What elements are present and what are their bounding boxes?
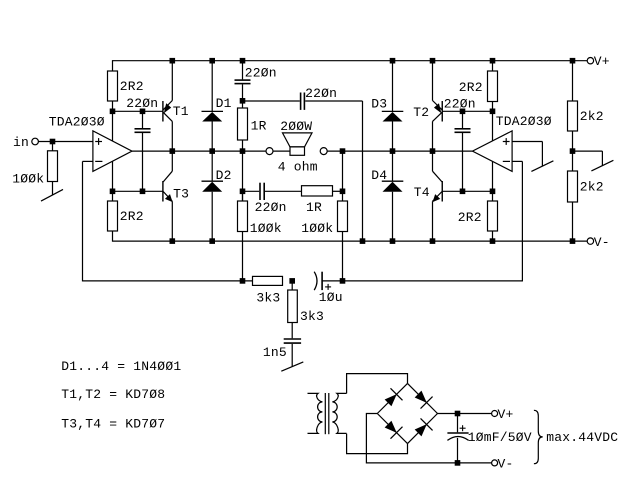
- svg-text:2R2: 2R2: [458, 210, 482, 225]
- resistor 2k2 (lower divider): [568, 171, 578, 202]
- node junction divider midpoint: [570, 148, 576, 154]
- bridge diode (bottom-right): [415, 424, 427, 436]
- resistor 2k2 (upper divider): [572, 61, 574, 101]
- ground (divider midpoint reference): [573, 150, 603, 152]
- diode D1: [211, 63, 213, 112]
- svg-text:2k2: 2k2: [580, 109, 604, 124]
- wire bridge plus output to V+: [438, 413, 492, 415]
- svg-text:D4: D4: [371, 168, 387, 183]
- node junction base line / 2R2 column: [110, 109, 116, 115]
- svg-text:2R2: 2R2: [459, 80, 483, 95]
- transformer TR1 secondary winding: [332, 393, 346, 433]
- node junction 3k3/10u/3k3: [289, 278, 295, 284]
- terminal V+: [587, 58, 593, 64]
- resistor 3k3 (vertical): [291, 281, 293, 290]
- wire 2R2 lower-left to V- rail corner: [112, 231, 114, 242]
- svg-text:D1...4 = 1N4ØØ1: D1...4 = 1N4ØØ1: [61, 359, 181, 374]
- wire secondary bottom to bridge: [347, 434, 408, 454]
- node junction base line / 220n cap: [140, 109, 146, 115]
- capacitor 220n (horizontal at y=191): [243, 190, 260, 192]
- wire bridge minus output to V-: [366, 414, 491, 463]
- wire V- bottom rail: [113, 240, 588, 242]
- svg-text:3k3: 3k3: [300, 309, 324, 324]
- bridge diode (top-left): [385, 394, 397, 406]
- resistor 100k (left of pair): [242, 191, 244, 201]
- svg-text:22Øn: 22Øn: [245, 66, 277, 81]
- svg-text:2ØØW: 2ØØW: [280, 119, 312, 134]
- svg-text:D2: D2: [216, 168, 232, 183]
- ground (input 100k): [52, 182, 54, 196]
- wire output line of U1 (to speaker): [132, 150, 266, 152]
- resistor 3k3 (horizontal, feedback): [253, 276, 283, 285]
- node junction lower base line / 220n cap: [140, 189, 146, 195]
- svg-text:1R: 1R: [251, 119, 267, 134]
- svg-text:V+: V+: [594, 54, 610, 69]
- wire U2 inverting input to feedback: [512, 160, 522, 162]
- transistor T2: [441, 101, 443, 122]
- svg-text:1R: 1R: [306, 200, 322, 215]
- resistor 1R (vertical): [238, 108, 248, 140]
- loudspeaker 200W 4 ohm: [283, 133, 313, 147]
- wire feedback line (bottom, left part): [83, 280, 253, 282]
- node feedback junction left: [240, 278, 246, 284]
- node junction lower base line / 2R2 column: [110, 189, 116, 195]
- node junction 10u / 100k column: [340, 278, 346, 284]
- svg-text:1ØØk: 1ØØk: [301, 221, 333, 236]
- svg-text:2k2: 2k2: [580, 179, 604, 194]
- svg-text:T2: T2: [413, 105, 429, 120]
- wire U1 inverting input feedback down-left: [83, 160, 93, 162]
- resistor 1R (horizontal): [302, 186, 333, 196]
- terminal speaker right: [320, 148, 327, 155]
- transistor T3: [162, 181, 164, 202]
- svg-text:1ØØk: 1ØØk: [12, 171, 44, 186]
- wire right column x=492.5: [492, 102, 494, 202]
- wire T2 base line right: [442, 110, 492, 112]
- node junction T1 emitter / V+ rail: [170, 58, 176, 64]
- wire left column x=112.5 from 2R2 down to lower base line: [112, 101, 114, 201]
- capacitor 10mF/50V: [457, 414, 459, 433]
- op-amp U1 TDA2030 (left): [93, 131, 132, 172]
- terminal V+ (supply): [492, 411, 498, 417]
- svg-text:TDA2Ø3Ø: TDA2Ø3Ø: [49, 114, 105, 129]
- wire secondary top to bridge: [347, 374, 408, 394]
- diode D3: [392, 63, 394, 112]
- svg-text:1ØØk: 1ØØk: [250, 221, 282, 236]
- wire V+ top rail: [113, 60, 588, 62]
- op-amp U2 TDA2030 (right): [473, 131, 513, 172]
- bridge rectifier diamond: [408, 383, 438, 413]
- ground (1n5): [291, 344, 293, 367]
- svg-text:4 ohm: 4 ohm: [278, 159, 318, 174]
- svg-text:1Øu: 1Øu: [319, 290, 343, 305]
- node junction input / 100k: [50, 139, 56, 145]
- terminal V-: [587, 238, 593, 244]
- wire T4 base line right: [442, 190, 492, 192]
- diode D4: [392, 153, 394, 181]
- wire feedback line right part: [322, 280, 522, 282]
- svg-text:D1: D1: [216, 96, 232, 111]
- svg-text:TDA2Ø3Ø: TDA2Ø3Ø: [496, 114, 552, 129]
- node junction T3 emitter / V- rail: [170, 238, 176, 244]
- svg-text:T4: T4: [414, 185, 430, 200]
- ground (U2 + input): [512, 141, 542, 143]
- node junction cap / V+ line: [455, 411, 461, 417]
- capacitor 220n (V+ rail Boucherot): [242, 61, 244, 80]
- diode D2: [211, 153, 213, 181]
- wire Zobel column down to V- rail: [362, 101, 364, 241]
- svg-text:3k3: 3k3: [256, 290, 280, 305]
- terminal in: [32, 138, 39, 145]
- node A junction 220n / 1R / 220n horizontal: [240, 98, 246, 104]
- capacitor 1n5: [291, 323, 293, 339]
- resistor 2R2 lower-right: [488, 201, 498, 231]
- resistor 2R2 upper-right: [492, 61, 494, 71]
- svg-text:V-: V-: [594, 235, 610, 250]
- bridge diode (top-right): [415, 391, 427, 403]
- resistor 2R2 upper-left: [108, 71, 118, 101]
- svg-text:in: in: [13, 135, 29, 150]
- svg-text:2R2: 2R2: [120, 79, 144, 94]
- capacitor 220n (right, between base lines): [462, 111, 464, 128]
- wire output to right Boucherot column: [342, 151, 344, 201]
- capacitor 220n (horizontal, top): [243, 100, 300, 102]
- svg-text:D3: D3: [371, 97, 387, 112]
- svg-text:V-: V-: [498, 456, 514, 471]
- terminal speaker left: [266, 148, 273, 155]
- node junction T1 collector / output line: [170, 148, 176, 154]
- svg-text:T3,T4 = KD7Ø7: T3,T4 = KD7Ø7: [61, 417, 165, 432]
- resistor 100k (right of pair): [338, 201, 348, 232]
- resistor 2R2 lower-left: [108, 201, 118, 231]
- svg-text:T3: T3: [173, 187, 189, 202]
- node junction 1R / 100k right column: [340, 189, 346, 195]
- svg-text:T1,T2 = KD7Ø8: T1,T2 = KD7Ø8: [61, 387, 165, 402]
- wire 100k right down across V- rail to feedback node: [342, 232, 344, 281]
- svg-text:2R2: 2R2: [120, 209, 144, 224]
- transistor T1: [162, 101, 164, 122]
- svg-text:max.44VDC: max.44VDC: [546, 430, 618, 445]
- bridge diode (bottom-left): [385, 421, 397, 433]
- transistor T4: [441, 181, 443, 202]
- capacitor 220n (left, between base lines): [142, 111, 144, 128]
- svg-text:22Øn: 22Øn: [126, 96, 158, 111]
- transformer TR1 primary winding: [308, 393, 323, 433]
- node junction cap / V- line: [455, 460, 461, 466]
- wire T1 base line: [113, 110, 163, 112]
- svg-text:V+: V+: [498, 407, 514, 422]
- terminal V- (supply): [492, 460, 498, 466]
- wire input to + of U1: [38, 141, 93, 143]
- svg-text:1ØmF/5ØV: 1ØmF/5ØV: [468, 430, 532, 445]
- wire 100k left down across V- rail to feedback node: [242, 232, 244, 281]
- brace max.44VDC: [534, 410, 543, 463]
- svg-text:22Øn: 22Øn: [305, 86, 337, 101]
- svg-text:1n5: 1n5: [263, 345, 287, 360]
- resistor 100k (input): [52, 142, 54, 151]
- wire 1R to output line and on to 100k: [242, 140, 244, 201]
- svg-text:22Øn: 22Øn: [255, 200, 287, 215]
- transformer TR1 core: [324, 393, 326, 434]
- svg-text:T1: T1: [173, 104, 189, 119]
- capacitor 10u (electrolytic): [314, 272, 317, 290]
- wire top rail corner down to R 2R2 upper-left: [112, 60, 114, 71]
- wire T3 base line: [113, 190, 163, 192]
